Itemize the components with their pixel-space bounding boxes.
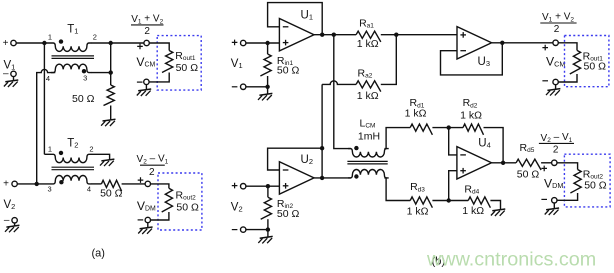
svg-text:1: 1: [48, 144, 52, 153]
resistor Ra2: [356, 81, 381, 92]
wire V1+ to T1 pin1: [16, 42, 51, 44]
T2 secondary winding: [51, 175, 91, 183]
branch junction to LCM: [332, 33, 336, 37]
wire Rout2 to VDM-: [151, 212, 169, 220]
wire Ra2 with hop: [322, 81, 356, 85]
ground under VDM- (a): [138, 227, 152, 234]
wire junction B down: [110, 43, 112, 85]
T2 core: [52, 166, 95, 168]
wire V2- row: [246, 229, 268, 231]
LCM bottom polarity dot: [354, 174, 358, 178]
wire to ground Rin2: [267, 230, 269, 238]
wire T1 pin2 to VCM+: [91, 42, 144, 44]
T2 primary polarity dot: [59, 151, 63, 155]
svg-text:50 Ω: 50 Ω: [584, 61, 607, 73]
svg-text:2: 2: [89, 144, 93, 153]
svg-text:(a): (a): [91, 248, 104, 260]
svg-text:50 Ω: 50 Ω: [277, 208, 300, 220]
wire Rout1 to VCM-: [149, 73, 169, 82]
wire branch down to LCM top: [334, 35, 351, 149]
wire Ra1 to U3: [381, 34, 457, 36]
junction Rin1 top: [265, 41, 269, 45]
svg-text:+: +: [3, 38, 9, 49]
wire node A down to T2 pin1: [43, 43, 45, 154]
resistor 50ohm horizontal (a): [101, 180, 121, 191]
wire V1- to ground (a): [13, 77, 15, 82]
resistor Rd3: [410, 197, 432, 208]
svg-text:4: 4: [87, 185, 91, 194]
ground under V2- (a): [5, 225, 19, 232]
svg-text:50 Ω: 50 Ω: [277, 65, 300, 77]
svg-text:1mH: 1mH: [358, 131, 380, 143]
wire Rd2 to output: [484, 128, 504, 163]
wire V2- to ground: [14, 223, 16, 227]
wire U1 output to Ra1: [314, 34, 356, 36]
plus sign VCM (a): [137, 44, 143, 50]
svg-text:V2 – V1: V2 – V1: [541, 132, 573, 144]
svg-text:1 kΩ: 1 kΩ: [407, 205, 429, 217]
T1 core: [52, 55, 95, 57]
wire T1 pin4 with hop over node A vertical: [37, 69, 56, 183]
resistor Rd4: [468, 197, 490, 208]
svg-text:50 Ω: 50 Ω: [176, 62, 199, 74]
terminal V1+ (b): [241, 40, 246, 45]
U3 feedback loop below: [441, 43, 503, 75]
wire junction up to U4 plus: [449, 171, 457, 201]
svg-text:4: 4: [46, 74, 50, 83]
svg-text:1 kΩ: 1 kΩ: [405, 108, 427, 120]
op-amp U4: [457, 147, 492, 179]
ground at T2 pin2: [100, 159, 114, 166]
terminal V1- (b): [241, 84, 246, 89]
wire Rout2 to VDM- (b): [557, 193, 578, 200]
wire VCM- ground: [555, 85, 557, 90]
node A junction (V1+): [42, 41, 46, 45]
dashed box Rout2 (b): [564, 154, 610, 207]
svg-text:V1 + V2: V1 + V2: [131, 14, 163, 26]
terminal VCM- (b): [553, 79, 558, 84]
wire VCM+ into box: [558, 43, 577, 51]
svg-text:2: 2: [144, 26, 150, 37]
wire Rd5 to VDM+: [541, 162, 552, 164]
svg-text:2: 2: [149, 167, 155, 178]
svg-text:2: 2: [93, 33, 97, 42]
wire VDM+ into box: [557, 163, 578, 170]
svg-text:–: –: [4, 215, 10, 226]
svg-text:50 Ω: 50 Ω: [176, 202, 199, 214]
wire V2+ to U2: [246, 185, 280, 187]
svg-text:1 kΩ: 1 kΩ: [460, 109, 482, 121]
svg-text:–: –: [3, 69, 9, 80]
wire V1+ to U1: [246, 42, 280, 44]
terminal VDM- (b): [552, 198, 557, 203]
resistor Rd1: [410, 124, 432, 135]
resistor Rin2: [267, 186, 269, 197]
wire Rout1 to VCM- (b): [558, 74, 577, 82]
svg-text:50 Ω: 50 Ω: [100, 187, 123, 199]
junction Rin2 top: [266, 184, 270, 188]
U3 output junction: [500, 41, 504, 45]
junction U2 feedback: [320, 146, 324, 150]
ground under VDM- (b): [545, 208, 559, 215]
T1 primary polarity dot: [59, 39, 63, 43]
junction T1pin4/V2: [35, 182, 39, 186]
terminal VDM- (a): [145, 217, 150, 222]
svg-text:1: 1: [48, 33, 52, 42]
wire VDM- to ground: [147, 223, 149, 229]
dashed box Rout1 (a): [157, 36, 201, 91]
ground under VCM- (a): [137, 89, 151, 96]
ground under Rin2: [258, 236, 272, 243]
resistor Rout1 (b): [570, 50, 581, 74]
wire junction down to U4 minus: [449, 128, 457, 155]
svg-text:+: +: [3, 179, 9, 190]
wire VDM+ into box: [151, 184, 169, 188]
op-amp U2: [279, 162, 314, 194]
terminal VCM+ (a): [144, 40, 149, 45]
op-amp U1: [279, 19, 314, 51]
resistor Ra1: [356, 31, 381, 42]
terminal V2- (b): [241, 227, 246, 232]
wire T2 pin4 to 50ohm: [91, 183, 101, 185]
svg-text:2: 2: [553, 145, 559, 156]
resistor 50ohm vertical (a): [104, 85, 115, 106]
wire 50ohm to ground: [110, 106, 112, 121]
junction Rd3/Rd4: [447, 198, 451, 202]
wire Ra2 left down to U2 output: [321, 84, 323, 177]
ground under 50ohm (a): [101, 119, 115, 126]
svg-text:V1 + V2: V1 + V2: [542, 12, 574, 24]
U1 output junction: [320, 33, 324, 37]
T1 secondary polarity dot: [82, 69, 86, 73]
resistor Rd5: [516, 159, 541, 170]
wire V1- row: [246, 86, 268, 88]
junction V2-: [266, 227, 270, 231]
terminal VCM+ (b): [553, 40, 558, 45]
junction Ra1/Ra2: [394, 33, 398, 37]
svg-text:1 kΩ: 1 kΩ: [462, 205, 484, 217]
wire LCM top right to Rd1: [384, 128, 410, 149]
terminal VDM+ (a): [145, 181, 150, 186]
wire 50ohm to VDM+: [122, 183, 146, 185]
svg-text:50 Ω: 50 Ω: [72, 93, 95, 105]
wire T1 pin3 to junction: [91, 72, 111, 74]
junction B: [109, 41, 113, 45]
wire V2+ to T2 pin3: [17, 183, 51, 185]
terminal V1+ (a): [11, 40, 16, 45]
resistor Rout1 (a): [162, 51, 173, 73]
op-amp U3: [457, 27, 492, 59]
LCM top winding: [348, 149, 389, 157]
U4 output junction: [501, 161, 505, 165]
wire U2 output to LCM bottom: [314, 177, 351, 179]
wire node A vertical to T2 pin1: [44, 153, 51, 155]
resistor Rout2 (a): [162, 188, 173, 212]
resistor Rin1: [267, 43, 269, 54]
wire U3 output to VCM+: [492, 42, 553, 44]
svg-text:3: 3: [83, 74, 87, 83]
T2 secondary polarity dot: [59, 180, 63, 184]
terminal V2- (a): [12, 218, 17, 223]
wire Rd3 to Rd4: [432, 200, 468, 202]
terminal V2+ (a): [12, 181, 17, 186]
T2 primary winding: [51, 154, 91, 162]
minus sign VDM (a): [138, 219, 144, 221]
dashed box Rout2 (a): [158, 173, 202, 230]
wire VDM- ground: [553, 203, 555, 209]
ground at Rd4: [491, 209, 505, 216]
ground under VCM- (b): [546, 89, 560, 96]
svg-text:V2 – V1: V2 – V1: [137, 154, 169, 166]
T1 secondary winding: [51, 64, 91, 72]
junction Rd1/Rd2: [447, 125, 451, 129]
dashed box Rout1 (b): [565, 36, 609, 87]
LCM top polarity dot: [354, 146, 358, 150]
resistor Rd2: [463, 124, 484, 135]
resistor Rout2 (b): [570, 170, 581, 194]
wire LCM bottom right to Rd3: [384, 178, 410, 201]
junction U2 output: [320, 176, 324, 180]
terminal V2+ (b): [241, 184, 246, 189]
wire VCM+ into box: [149, 43, 169, 51]
U2 feedback loop: [268, 148, 323, 170]
terminal V1- (a): [11, 71, 16, 76]
wire to ground Rin1: [267, 87, 269, 95]
wire T2 pin2 to ground: [91, 154, 110, 160]
junction V1-: [265, 85, 269, 89]
svg-text:www.cntronics.com: www.cntronics.com: [426, 248, 596, 270]
terminal VDM+ (b): [552, 160, 557, 165]
svg-text:1 kΩ: 1 kΩ: [357, 38, 379, 50]
wire U4 output: [492, 162, 517, 164]
T1 primary winding: [51, 43, 91, 51]
U1 feedback loop: [268, 3, 323, 35]
LCM bottom winding: [348, 169, 389, 177]
minus sign VCM (a): [137, 81, 143, 83]
wire Rd4 to ground: [490, 201, 500, 211]
svg-text:1 kΩ: 1 kΩ: [357, 90, 379, 102]
terminal VCM- (a): [144, 79, 149, 84]
svg-text:3: 3: [48, 185, 52, 194]
LCM core: [347, 160, 387, 162]
junction pin3/50ohm: [109, 70, 113, 74]
svg-text:50 Ω: 50 Ω: [517, 168, 540, 180]
svg-text:50 Ω: 50 Ω: [584, 179, 607, 191]
svg-text:2: 2: [554, 24, 560, 35]
plus sign VDM (a): [138, 177, 144, 183]
wire Rd1 to Rd2: [432, 127, 463, 129]
ground under V1- (a): [4, 80, 18, 87]
wire Ra2 right end up to node: [381, 35, 397, 85]
wire VCM- to ground: [145, 85, 147, 91]
ground under Rin1: [258, 93, 272, 100]
